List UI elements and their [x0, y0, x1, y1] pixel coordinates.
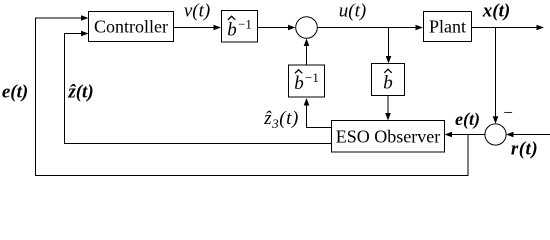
block ESO Observer: [332, 121, 445, 153]
block bhat: [372, 64, 405, 96]
sum circle 1: [296, 17, 318, 39]
block bhat-inv (middle): [289, 65, 325, 97]
wire: bhat output down into ESO Observer: [387, 96, 389, 115]
svg-text:x(t): x(t): [482, 1, 510, 22]
wire: e(t) feedback branch down, across bottom, up to Controller input 1: [36, 18, 469, 176]
svg-text:u(t): u(t): [339, 1, 366, 22]
svg-text:−: −: [503, 103, 513, 122]
svg-text:Controller: Controller: [94, 17, 168, 37]
svg-text:r(t): r(t): [511, 139, 538, 160]
sum circle 2: [485, 124, 506, 145]
svg-text:b: b: [383, 73, 393, 94]
wire: r(t) input from right into sum circle 2: [512, 134, 550, 136]
svg-text:ẑ(t): ẑ(t): [67, 82, 93, 103]
svg-text:ESO Observer: ESO Observer: [336, 127, 440, 147]
block Controller: [89, 12, 174, 42]
wire: branch down from u(t) into bhat block: [388, 28, 390, 58]
svg-text:−1: −1: [238, 17, 252, 32]
wire: ESO z3 output left then up into middle bhat-inv: [307, 104, 332, 128]
wire: sum circle 1 to Plant, u(t): [317, 27, 417, 29]
svg-text:b: b: [227, 20, 237, 41]
wire: sum circle 2 output e(t) into ESO Observer: [451, 134, 486, 136]
wire: branch from x(t) down into sum circle 2: [495, 28, 497, 118]
wire: bhat-inv output to sum circle 1: [258, 27, 290, 29]
wire: Plant output x(t) to right edge: [472, 27, 539, 29]
svg-text:e(t): e(t): [2, 82, 28, 103]
svg-text:Plant: Plant: [429, 17, 466, 37]
block Plant: [424, 12, 472, 42]
wire: middle bhat-inv output up into sum circle 1: [306, 45, 308, 66]
svg-text:−1: −1: [305, 70, 319, 85]
svg-text:v(t): v(t): [184, 1, 210, 22]
svg-text:e(t): e(t): [455, 109, 480, 130]
wire: controller output v(t): [174, 27, 216, 29]
block bhat-inv (top): [222, 11, 258, 43]
svg-text:b: b: [294, 73, 304, 94]
svg-text:ẑ3(t): ẑ3(t): [263, 108, 299, 131]
wire: ESO zhat output left and up to Controller input 2: [65, 34, 332, 144]
